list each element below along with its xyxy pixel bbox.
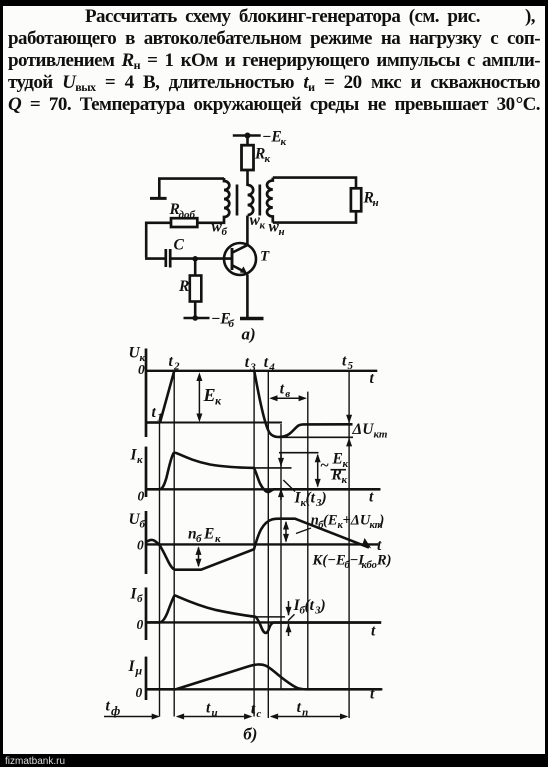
svg-text:(Е: (Е — [323, 513, 338, 529]
svg-text:): ) — [319, 597, 326, 614]
svg-text:0: 0 — [136, 685, 143, 700]
svg-text:к: к — [343, 458, 349, 470]
svg-text:и: и — [212, 707, 218, 719]
svg-text:μ: μ — [135, 664, 143, 678]
svg-text:t: t — [377, 537, 382, 554]
svg-text:б: б — [140, 519, 146, 531]
svg-text:): ) — [378, 513, 385, 529]
svg-text:к: к — [265, 153, 271, 165]
svg-text:Е: Е — [203, 526, 214, 543]
svg-text:в: в — [285, 388, 290, 400]
svg-text:t: t — [369, 489, 374, 506]
svg-text:+ΔU: +ΔU — [343, 513, 372, 529]
svg-text:−E: −E — [262, 129, 282, 146]
svg-text:t: t — [206, 700, 211, 717]
svg-text:t: t — [264, 354, 269, 371]
svg-text:0: 0 — [138, 362, 145, 377]
svg-text:R): R) — [376, 553, 392, 569]
svg-text:~: ~ — [320, 457, 329, 474]
svg-text:t: t — [245, 354, 250, 371]
svg-text:E: E — [203, 385, 216, 405]
svg-text:4: 4 — [268, 362, 275, 374]
svg-text:0: 0 — [137, 538, 144, 553]
svg-text:3: 3 — [249, 362, 256, 374]
svg-text:t: t — [370, 686, 375, 703]
svg-text:R: R — [178, 278, 189, 295]
svg-text:2: 2 — [173, 361, 180, 373]
svg-text:к: к — [215, 394, 222, 408]
svg-text:к: к — [260, 220, 266, 232]
svg-text:): ) — [320, 490, 327, 507]
svg-text:н: н — [279, 226, 285, 238]
svg-text:ф: ф — [111, 703, 120, 718]
svg-text:C: C — [174, 237, 185, 254]
svg-text:0: 0 — [138, 489, 145, 504]
svg-text:к: к — [137, 454, 143, 466]
svg-text:к: к — [342, 474, 348, 486]
svg-text:0: 0 — [137, 617, 144, 632]
svg-text:кт: кт — [374, 429, 388, 441]
svg-text:а): а) — [242, 325, 256, 344]
svg-text:t: t — [106, 698, 111, 715]
svg-text:5: 5 — [348, 360, 354, 372]
svg-text:доб: доб — [179, 209, 196, 221]
svg-text:(t: (t — [306, 490, 316, 507]
svg-text:б: б — [229, 318, 235, 330]
svg-text:t: t — [169, 353, 174, 370]
svg-text:н: н — [373, 197, 379, 209]
svg-text:к: к — [281, 136, 287, 148]
svg-text:t: t — [371, 623, 376, 640]
svg-text:б: б — [196, 533, 202, 545]
svg-text:с: с — [256, 708, 261, 720]
svg-text:t: t — [152, 404, 157, 421]
svg-text:T: T — [260, 249, 270, 265]
svg-text:К(−Е: К(−Е — [312, 553, 346, 569]
svg-text:I: I — [128, 658, 136, 675]
svg-text:t: t — [251, 701, 256, 718]
svg-text:б: б — [222, 226, 228, 238]
svg-text:п: п — [302, 707, 308, 719]
svg-text:t: t — [297, 699, 302, 716]
svg-text:t: t — [342, 353, 347, 370]
svg-text:ΔU: ΔU — [352, 421, 375, 438]
svg-text:б: б — [137, 593, 143, 605]
svg-text:R: R — [331, 467, 342, 484]
svg-text:кбо: кбо — [362, 560, 377, 571]
svg-text:(t: (t — [305, 597, 315, 614]
svg-text:б): б) — [243, 725, 257, 744]
svg-text:1: 1 — [157, 412, 163, 424]
svg-text:t: t — [370, 370, 375, 387]
svg-text:к: к — [215, 533, 221, 545]
svg-text:E: E — [332, 451, 343, 468]
svg-text:t: t — [280, 381, 285, 398]
